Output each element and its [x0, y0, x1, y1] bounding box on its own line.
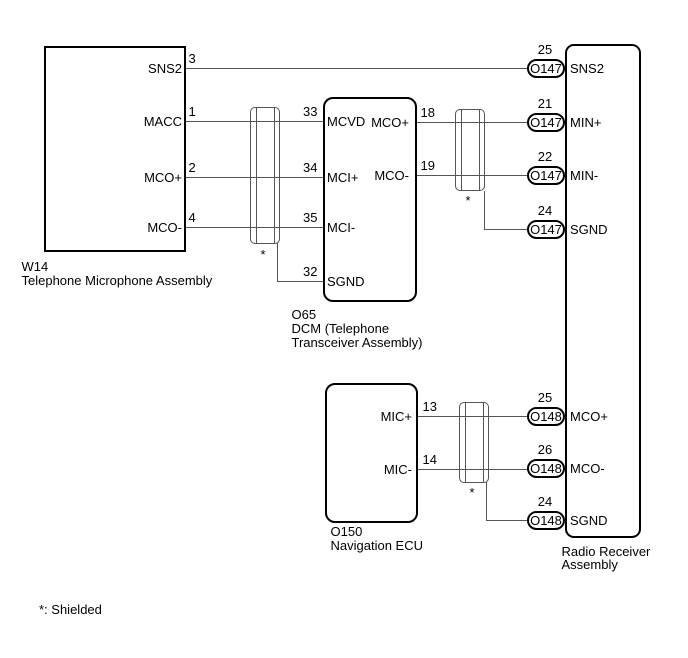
component W14 Telephone Microphone Assembly box: [44, 46, 186, 252]
pin label SGND in Radio Receiver: [570, 220, 608, 239]
pin label MCO+ in Radio Receiver: [570, 407, 608, 426]
pin label MIC+ in Navigation ECU: [330, 407, 412, 426]
pin label MCO+ in DCM right: [330, 113, 409, 132]
pin number 24 at O148 SGND: [526, 492, 564, 511]
pin number 32 at DCM: [288, 262, 318, 281]
pin number 33 at DCM: [288, 102, 318, 121]
shield symbol 1 outer: [250, 107, 280, 244]
wire SNS2 W14 pin3 to O147 pin25: [186, 68, 528, 69]
connector O147 pin25 SNS2: [527, 59, 565, 78]
pin number 34 at DCM: [288, 158, 318, 177]
shield symbol 3 outer: [459, 402, 489, 483]
label O65 DCM Telephone Transceiver Assembly: [292, 308, 423, 350]
shield symbol 2 outer: [455, 109, 485, 191]
asterisk shield 2: [466, 194, 471, 207]
pin number 35 at DCM: [288, 208, 318, 227]
wire MIC+ Nav pin13 to O148 pin25 MCO+: [418, 416, 528, 417]
shield symbol 1 inner left line: [256, 107, 257, 244]
wire shield drain vertical to DCM SGND pin32: [277, 243, 278, 281]
wire shield3 drain horizontal to O148 pin24 SGND: [486, 520, 528, 521]
pin number 3 at W14: [189, 49, 196, 68]
pin label MIN+ in Radio Receiver: [570, 113, 601, 132]
connector O148 pin24 SGND: [527, 511, 565, 530]
asterisk shield 1: [261, 248, 266, 261]
pin number 18 at DCM right: [421, 103, 435, 122]
shield symbol 2 inner right line: [479, 109, 480, 191]
pin number 22 at O147 MIN-: [526, 147, 564, 166]
wire shield2 drain vertical to O147 pin24 SGND: [484, 191, 485, 229]
wire MIC- Nav pin14 to O148 pin26 MCO-: [418, 469, 528, 470]
shield symbol 1 inner right line: [274, 107, 275, 244]
pin label SGND in Radio Receiver lower: [570, 511, 608, 530]
pin number 2 at W14: [189, 158, 196, 177]
pin label MCO- in DCM right: [330, 166, 409, 185]
wire shield2 drain horizontal to O147 pin24 SGND: [484, 229, 528, 230]
connector O147 pin24 SGND: [527, 220, 565, 239]
pin number 25 at O148 MCO+: [526, 388, 564, 407]
pin label MIN- in Radio Receiver: [570, 166, 598, 185]
pin number 26 at O148 MCO-: [526, 440, 564, 459]
asterisk shield 3: [470, 486, 475, 499]
wire DCM MCO- pin19 to O147 pin22 MIN-: [417, 175, 528, 176]
pin number 21 at O147 MIN+: [526, 94, 564, 113]
pin label MCI- in DCM: [327, 218, 355, 237]
pin number 25 at O147 SNS2: [526, 40, 564, 59]
note shielded: [39, 603, 102, 617]
component Radio Receiver Assembly box: [565, 44, 641, 538]
pin number 14 at Navigation ECU: [423, 450, 437, 469]
pin label MIC- in Navigation ECU: [330, 460, 412, 479]
label W14 Telephone Microphone Assembly: [22, 260, 213, 288]
connector O147 pin22 MIN-: [527, 166, 565, 185]
pin number 1 at W14: [189, 102, 196, 121]
pin number 19 at DCM right: [421, 156, 435, 175]
pin label SGND in DCM: [327, 272, 365, 291]
pin number 24 at O147 SGND: [526, 201, 564, 220]
pin label MACC in W14: [100, 112, 182, 131]
shield symbol 3 inner left line: [465, 402, 466, 483]
pin label MCO+ in W14: [100, 168, 182, 187]
pin number 4 at W14: [189, 208, 196, 227]
wire MCO+ W14 pin2 to DCM MCI+ pin34: [186, 177, 323, 178]
label O150 Navigation ECU: [331, 525, 424, 553]
wire DCM MCO+ pin18 to O147 pin21 MIN+: [417, 122, 528, 123]
connector O147 pin21 MIN+: [527, 113, 565, 132]
pin label MCVD in DCM: [327, 112, 365, 131]
wire shield drain horizontal to DCM SGND pin32: [277, 281, 323, 282]
pin label SNS2 in W14: [100, 59, 182, 78]
connector O148 pin26 MCO-: [527, 459, 565, 478]
pin label MCI+ in DCM: [327, 168, 358, 187]
wire MACC W14 pin1 to DCM MCVD pin33: [186, 121, 323, 122]
shield symbol 3 inner right line: [483, 402, 484, 483]
pin number 13 at Navigation ECU: [423, 397, 437, 416]
pin label MCO- in W14: [100, 218, 182, 237]
component O65 DCM Telephone Transceiver Assembly box: [323, 97, 417, 302]
shield symbol 2 inner left line: [461, 109, 462, 191]
wire shield3 drain vertical to O148 pin24 SGND: [486, 482, 487, 520]
label Radio Receiver Assembly: [562, 545, 651, 571]
pin label MCO- in Radio Receiver: [570, 459, 605, 478]
component O150 Navigation ECU box: [325, 383, 418, 523]
pin label SNS2 in Radio Receiver: [570, 59, 604, 78]
connector O148 pin25 MCO+: [527, 407, 565, 426]
wire MCO- W14 pin4 to DCM MCI- pin35: [186, 227, 323, 228]
